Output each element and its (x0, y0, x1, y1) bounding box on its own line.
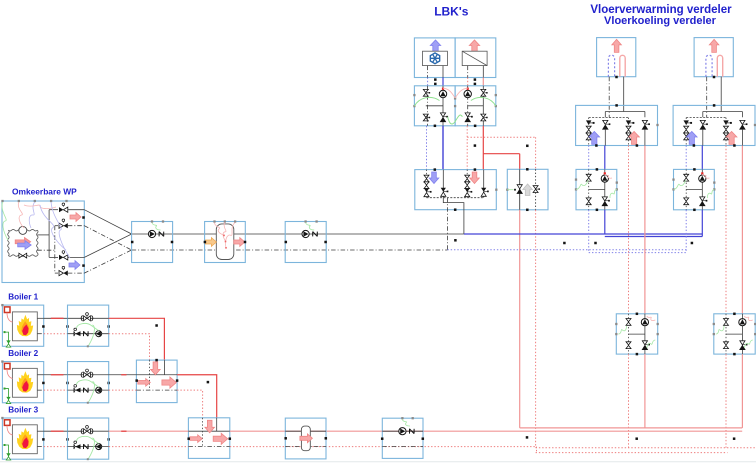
svg-text:Vloerkoeling verdeler: Vloerkoeling verdeler (604, 15, 717, 27)
svg-text:Vloerverwarming verdeler: Vloerverwarming verdeler (590, 4, 732, 16)
svg-text:Omkeerbare WP: Omkeerbare WP (12, 187, 77, 197)
svg-text:Boiler 2: Boiler 2 (8, 349, 38, 358)
svg-text:Boiler 3: Boiler 3 (8, 406, 38, 415)
svg-text:LBK's: LBK's (434, 4, 469, 18)
svg-text:Boiler 1: Boiler 1 (8, 293, 38, 302)
